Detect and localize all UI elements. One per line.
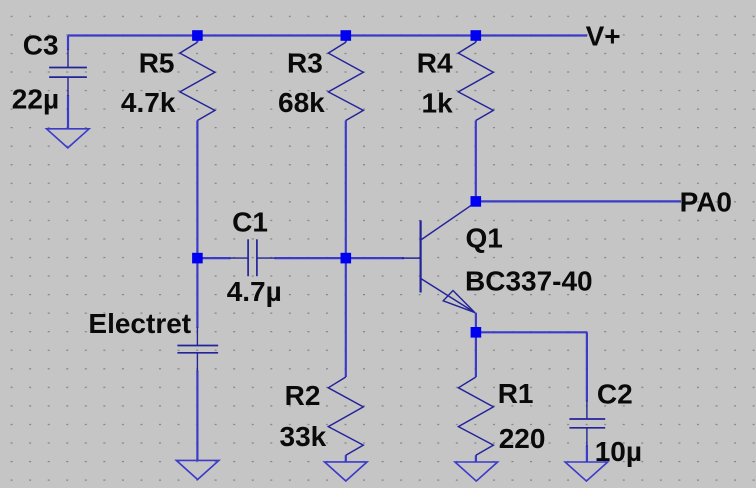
svg-text:BC337-40: BC337-40 [465, 265, 593, 296]
svg-text:C2: C2 [597, 379, 633, 410]
svg-text:V+: V+ [586, 20, 621, 51]
svg-text:R2: R2 [285, 380, 321, 411]
svg-text:Q1: Q1 [466, 223, 503, 254]
svg-text:10µ: 10µ [595, 436, 642, 467]
svg-text:R1: R1 [498, 378, 534, 409]
svg-text:R5: R5 [139, 48, 175, 79]
svg-text:220: 220 [499, 423, 546, 454]
svg-text:4.7µ: 4.7µ [227, 276, 282, 307]
svg-text:33k: 33k [280, 421, 327, 452]
svg-text:Electret: Electret [88, 308, 191, 339]
svg-text:C3: C3 [23, 30, 59, 61]
svg-text:4.7k: 4.7k [121, 87, 176, 118]
svg-text:R3: R3 [287, 48, 323, 79]
svg-text:1k: 1k [422, 88, 454, 119]
svg-text:68k: 68k [278, 87, 325, 118]
svg-text:R4: R4 [417, 48, 453, 79]
svg-text:22µ: 22µ [12, 83, 59, 114]
svg-text:PA0: PA0 [680, 187, 732, 218]
svg-text:C1: C1 [232, 207, 268, 238]
